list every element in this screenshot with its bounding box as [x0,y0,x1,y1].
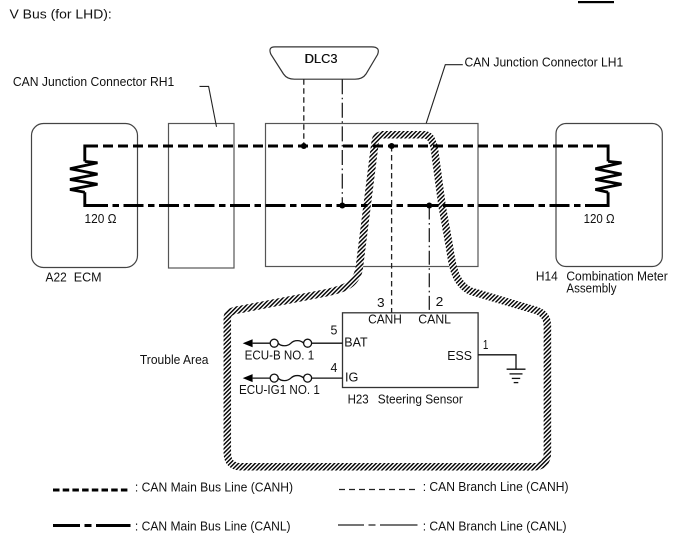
svg-text:CAN Junction Connector LH1: CAN Junction Connector LH1 [465,55,624,70]
svg-text:IG: IG [345,370,358,385]
svg-text:120 Ω: 120 Ω [85,211,117,226]
svg-text:: CAN Main Bus Line (CANL): : CAN Main Bus Line (CANL) [135,518,291,533]
svg-text:CANH: CANH [368,312,402,327]
svg-text:3: 3 [377,295,385,310]
svg-text:: CAN Branch Line (CANL): : CAN Branch Line (CANL) [423,518,567,533]
svg-text:CANL: CANL [418,312,451,327]
svg-text:2: 2 [436,294,444,309]
svg-text:ECM: ECM [74,269,102,284]
svg-text:4: 4 [331,360,338,375]
svg-text:1: 1 [483,337,489,352]
svg-text:A22: A22 [46,269,67,284]
svg-text:H23: H23 [348,391,369,406]
svg-text:V Bus (for LHD):: V Bus (for LHD): [10,6,112,21]
svg-text:120 Ω: 120 Ω [584,211,615,226]
svg-text:CAN Junction Connector RH1: CAN Junction Connector RH1 [13,74,174,89]
svg-text:Steering Sensor: Steering Sensor [378,391,464,406]
svg-text:: CAN Branch Line (CANH): : CAN Branch Line (CANH) [423,479,569,494]
svg-text:ESS: ESS [447,348,472,363]
svg-text:ECU-IG1 NO. 1: ECU-IG1 NO. 1 [239,382,320,397]
svg-text:H14: H14 [536,269,558,284]
svg-text:Trouble Area: Trouble Area [140,352,209,367]
svg-text:: CAN Main Bus Line (CANH): : CAN Main Bus Line (CANH) [135,479,293,494]
svg-text:BAT: BAT [344,335,367,350]
svg-text:DLC3: DLC3 [305,51,337,66]
svg-text:5: 5 [331,323,338,338]
svg-text:ECU-B NO. 1: ECU-B NO. 1 [245,347,315,362]
svg-text:Assembly: Assembly [566,280,617,295]
